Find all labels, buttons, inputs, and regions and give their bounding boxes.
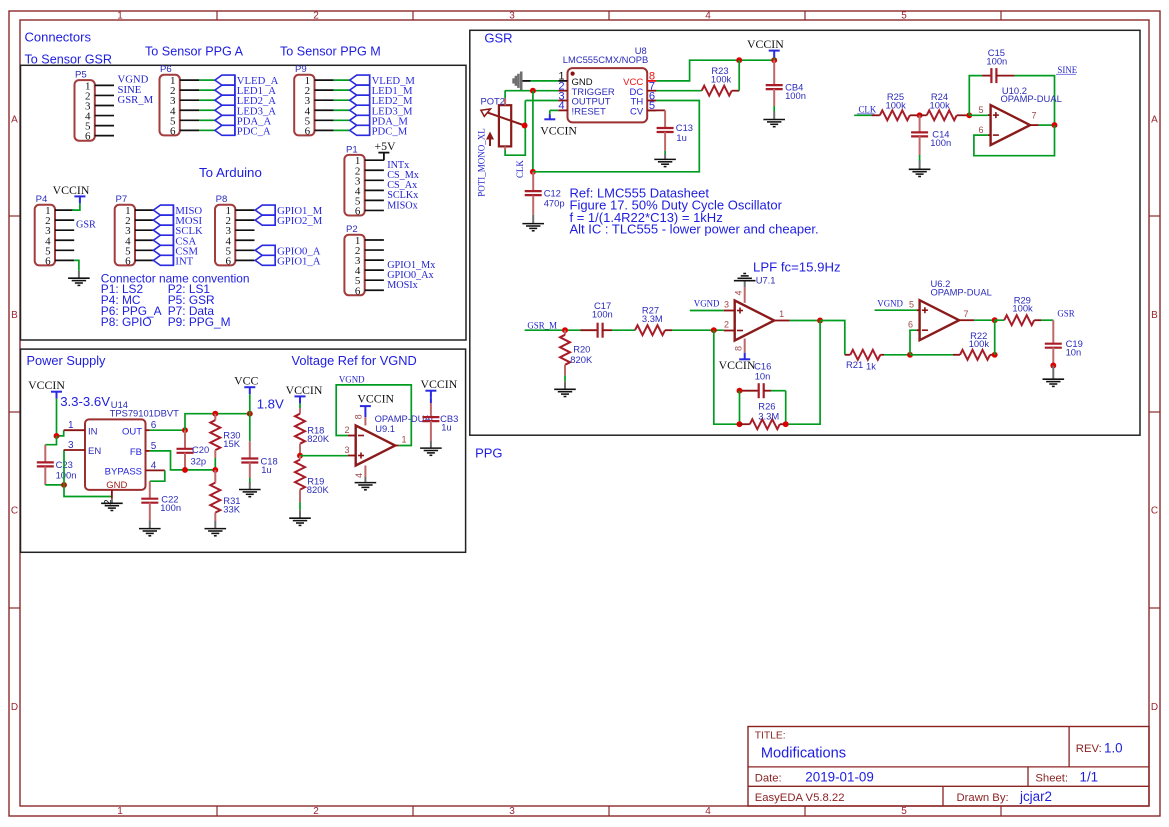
title LPF fc=15.9Hz [753,260,841,275]
svg-text:32p: 32p [191,455,207,466]
wire TH loop [533,101,699,172]
ground at P4 [68,271,90,286]
capacitor C14 [911,115,951,160]
svg-text:GSR_M: GSR_M [118,94,154,106]
ground CB3 [420,441,442,455]
svg-text:A: A [1151,114,1158,125]
svg-text:3: 3 [509,806,515,817]
title block REV [1076,741,1123,756]
junction R26 left [737,421,743,427]
svg-text:CV: CV [630,106,644,117]
POT2 refdes [481,96,506,107]
title block Date [755,770,874,785]
power flag VCCIN at CB3 [421,377,458,398]
U14 part number [110,408,180,419]
svg-text:820K: 820K [307,433,330,444]
wire C16 right down [785,391,787,425]
title Power Supply [27,353,107,368]
wire OUTPUT to POT bottom [505,101,525,156]
svg-text:3: 3 [68,440,74,451]
U14 refdes [111,399,128,410]
svg-text:CLK: CLK [515,160,525,178]
Power Supply section box [21,349,466,552]
junction TRIGGER-C12-TH [530,169,536,175]
svg-text:POT2: POT2 [481,96,506,107]
wire C15 top branch [969,76,982,116]
svg-text:GSR_M: GSR_M [527,321,557,331]
U8 refdes [635,45,647,56]
wire GND net to U14 GND pin [64,485,112,497]
svg-text:1: 1 [117,806,123,817]
net label VGND at U6 [877,299,903,309]
wire to U10 pin5 [969,114,988,116]
junction R22 right [992,352,998,358]
junction GSR_M-R20 [562,327,568,333]
svg-text:6: 6 [355,285,361,297]
svg-text:OPAMP-DUAL: OPAMP-DUAL [931,286,992,297]
svg-text:B: B [11,310,18,321]
svg-text:100n: 100n [785,90,806,101]
resistor R22 [953,330,995,360]
U14 pin4 BYPASS [105,460,165,477]
U8 pin7 DC [629,81,656,98]
svg-text:100k: 100k [886,100,907,111]
svg-text:Modifications: Modifications [761,746,846,762]
svg-text:1u: 1u [676,132,686,143]
U10.2 pin7 output [1030,110,1039,125]
title block TITLE label [755,731,786,742]
wire U8 pin1 [531,80,559,82]
IC U8 LMC555 box [568,68,648,122]
svg-text:5: 5 [978,105,983,115]
svg-text:LPF fc=15.9Hz: LPF fc=15.9Hz [753,260,841,275]
connector P6 [160,64,200,137]
capacitor C17 [581,300,613,338]
svg-text:Sheet:: Sheet: [1035,772,1068,784]
ground C14 [909,161,931,177]
svg-text:1k: 1k [866,360,876,371]
net label CLK vertical [515,160,525,178]
junction R26 right [783,421,789,427]
power flag VCCIN at R18 [286,383,323,404]
svg-text:2: 2 [344,425,349,435]
ground C22 [139,521,161,536]
svg-text:1u: 1u [261,464,271,475]
svg-text:3: 3 [509,11,515,22]
svg-text:BYPASS: BYPASS [105,467,142,478]
wire C20 node up to top rail [185,414,250,431]
svg-text:POTI_MONO_XL: POTI_MONO_XL [477,128,487,197]
svg-text:VCCIN: VCCIN [719,358,756,372]
op-amp U9.1 [356,426,396,466]
svg-text:To Sensor PPG M: To Sensor PPG M [280,45,381,59]
U7.1 pin8 VCCIN [719,339,756,372]
svg-text:Power Supply: Power Supply [27,353,107,368]
junction rail R30 [212,411,218,417]
wire FB node [150,451,216,470]
svg-text:10n: 10n [1066,347,1082,358]
op-amp U7.1 [735,301,775,341]
junction U10 output [1052,122,1058,128]
svg-text:820K: 820K [570,354,593,365]
resistor R21 [845,350,884,372]
svg-text:C20: C20 [192,444,209,455]
svg-text:6: 6 [45,255,51,267]
wire VGND feedback loop [336,385,411,446]
net ports P6 group [215,75,235,136]
svg-text:REV:: REV: [1076,743,1102,755]
capacitor C15 [982,47,1015,83]
wire C23 to GND net [45,484,64,486]
note Connector name convention [101,271,250,285]
junction U7 output [817,318,823,324]
ground C18 [239,482,261,497]
wire to U9 pin3 [300,455,348,457]
svg-text:P6: P6 [160,64,172,75]
connector P7 [115,194,155,267]
svg-text:100n: 100n [986,55,1007,66]
U8 pin2 TRIGGER [558,81,615,98]
U14 pin1 IN [64,420,98,437]
svg-text:R20: R20 [573,344,590,355]
title To Sensor PPG A [145,45,244,59]
GSR section box [470,30,1140,435]
wire OUTPUT net [525,100,558,102]
U9.1 pin1 output [395,435,406,446]
wire U6 output [974,319,995,321]
title Voltage Ref for VGND [292,353,417,368]
wire GSR_M [525,329,581,331]
U10.2 pin5 [978,105,990,115]
svg-text:C: C [1151,505,1158,516]
junction C19 bottom [1050,363,1056,369]
title block EasyEDA version [755,792,845,804]
svg-text:P5: P5 [75,70,87,81]
power flag VCCIN at P4 [53,183,90,204]
svg-text:5: 5 [901,806,907,817]
svg-text:PPG: PPG [475,446,502,461]
junction TRIGGER [530,88,536,94]
power flag VCC [234,374,258,395]
note P4 P5 [101,293,215,307]
svg-text:1: 1 [779,309,784,319]
connector P2 [344,224,384,297]
wire VGND to U7 pin3 [690,310,724,312]
svg-text:VGND: VGND [877,299,903,309]
svg-text:100k: 100k [930,100,951,111]
svg-text:MISOx: MISOx [387,200,418,211]
connector P5 [75,70,115,143]
svg-text:GSR: GSR [76,220,96,231]
capacitor C23 [37,445,77,485]
svg-text:P9: P9 [295,64,307,75]
svg-text:3.3-3.6V: 3.3-3.6V [60,394,110,409]
svg-text:1.0: 1.0 [1104,741,1123,756]
junction U7 pin2 node [711,327,717,333]
wire VCCIN to C23 [45,436,56,445]
wire P4 pin6 down [74,260,79,270]
POT2 variable arrow [486,132,494,147]
op-amp U6.2 [920,300,960,340]
wire C15 to output [1015,76,1055,126]
U8 pin3 OUTPUT [558,90,610,107]
svg-text:4: 4 [354,473,364,478]
svg-text:2019-01-09: 2019-01-09 [805,770,874,785]
junction R25-R24-C14 [917,112,923,118]
wire VGND to U6 pin5 [875,309,917,311]
potentiometer POT2 body [499,98,511,150]
svg-text:EN: EN [88,446,101,457]
U6.2 pin7 output [959,309,974,320]
wire POT2 top to TRIGGER [504,91,506,98]
svg-text:6: 6 [85,131,91,143]
wire BYPASS to C22 [150,470,165,481]
svg-text:VCCIN: VCCIN [540,124,577,138]
svg-text:VCCIN: VCCIN [747,37,784,51]
svg-text:6: 6 [305,125,311,137]
junction VCCIN node [54,433,60,439]
capacitor C13 [647,110,693,154]
svg-text:470p: 470p [544,197,565,208]
svg-text:VCCIN: VCCIN [357,392,394,406]
U14 pin3 EN [64,440,102,457]
capacitor C19 [1045,320,1083,365]
U7.1 refdes [756,275,776,286]
svg-text:IN: IN [88,426,98,437]
U8 part number [563,54,648,65]
U9.1 labels [375,413,436,434]
wire TRIGGER down to C12-TH [532,91,534,172]
svg-text:D: D [11,702,18,713]
junction FB-C20 [182,467,188,473]
wire CLK to R25 [854,114,871,116]
svg-text:100k: 100k [969,338,990,349]
U8 pin6 TH [631,90,657,107]
U10.2 labels [1001,85,1062,104]
svg-text:P4: P4 [36,194,48,205]
svg-text:VCCIN: VCCIN [286,383,323,397]
label 3.3-3.6V [60,394,110,409]
svg-text:To Arduino: To Arduino [199,165,262,180]
wire U10 feedback [974,125,1055,156]
svg-text:10n: 10n [755,370,771,381]
svg-text:100n: 100n [56,470,77,481]
resistor R25 [872,91,920,120]
junction C16 left [737,388,743,394]
resistor R23 [702,65,740,96]
net label VGND [118,74,149,86]
svg-text:GPIO2_M: GPIO2_M [277,215,323,227]
wire R29 to GSR [1041,319,1053,321]
U14 pin5 FB [130,441,157,458]
wire C17 to R27 [612,329,635,331]
U8 pin4 !RESET [558,100,606,117]
note P8 P9 [101,315,231,329]
svg-text:1u: 1u [441,422,451,433]
svg-text:GSR: GSR [484,31,512,46]
U9.1 pin8 VCCIN [354,392,395,426]
net label CLK [857,104,877,114]
U9.1 pin3 [344,445,355,456]
svg-text:CLK: CLK [859,104,877,114]
svg-text:LMC555CMX/NOPB: LMC555CMX/NOPB [563,54,648,65]
svg-text:7: 7 [1031,110,1036,120]
resistor R27 [635,304,672,335]
resistor R29 [1004,294,1041,325]
svg-text:VCCIN: VCCIN [28,378,65,392]
ground flag U8 pin1 [514,72,531,91]
title block Sheet [1035,770,1098,785]
svg-text:+5V: +5V [374,139,396,153]
power flag VCCIN at U8 RESET [540,115,577,138]
title Connectors [25,30,92,45]
junction C23-EN-GND [61,482,67,488]
svg-text:B: B [1151,310,1158,321]
U7.1 pin4 ground [733,274,755,303]
wire R22 node [910,354,953,356]
svg-text:1: 1 [117,11,123,22]
svg-text:GSR: GSR [1057,308,1074,318]
title GSR [484,31,512,46]
svg-text:TPS79101DBVT: TPS79101DBVT [110,408,180,419]
svg-text:Drawn By:: Drawn By: [957,792,1009,804]
U6.2 pin6 [908,320,920,331]
wire feedback bottom [714,330,740,424]
U7.1 pin1 output [774,309,789,321]
capacitor C16 [740,361,786,399]
junction OUT-C20 [182,427,188,433]
note f formula [570,210,723,225]
capacitor C20 [177,430,210,470]
U8 pin1 GND [558,71,592,88]
capacitor CB4 [766,58,806,112]
ground C12 [522,215,544,231]
resistor R20 [560,330,593,381]
svg-text:P2: P2 [346,224,358,235]
svg-text:8: 8 [354,414,364,419]
title PPG [475,446,502,461]
svg-text:100n: 100n [930,137,951,148]
svg-text:100k: 100k [711,74,732,85]
wire C16 left down [739,391,741,425]
IC U14 TPS79101DBVT box [85,419,146,490]
svg-text:R21: R21 [846,359,863,370]
svg-text:5: 5 [909,300,914,310]
svg-text:2: 2 [724,320,729,330]
wire output to feedback bottom [786,321,820,425]
svg-text:6: 6 [355,205,361,217]
net label SINE [1056,65,1077,75]
U14 GND pin2 [103,480,127,505]
wire TRIGGER net [505,90,559,92]
wire R21 to node [884,354,910,356]
svg-text:6: 6 [225,255,231,267]
svg-text:Voltage Ref for VGND: Voltage Ref for VGND [292,353,417,368]
svg-text:1.8V: 1.8V [257,397,284,412]
svg-text:5: 5 [901,11,907,22]
svg-text:VCCIN: VCCIN [53,183,90,197]
net port labels P7 [175,205,203,267]
net ports P8 group [255,205,275,266]
ground R20 [554,381,576,396]
resistor R31 [210,470,240,521]
junction FB-R30-R31 [212,467,218,473]
svg-text:A: A [11,114,18,125]
junction R21-R22-U6pin6 [907,352,913,358]
svg-text:4: 4 [151,460,157,471]
wire VCC down [249,394,251,441]
resistor R30 [210,414,240,470]
svg-text:U7.1: U7.1 [756,275,776,286]
connector P8 [215,194,255,267]
svg-text:!RESET: !RESET [572,106,607,117]
svg-text:VCCIN: VCCIN [421,377,458,391]
svg-text:FB: FB [130,447,142,458]
svg-text:3.3M: 3.3M [642,313,663,324]
power flag VCCIN power-supply [28,378,65,399]
junction R18-R19 [297,453,303,459]
wire P4 pin1 to VCCIN [72,203,80,210]
svg-text:jcjar2: jcjar2 [1019,789,1052,804]
capacitor C22 [141,481,181,520]
svg-text:SINE: SINE [1057,65,1077,75]
wire !RESET to VCCIN [550,110,559,114]
resistor R26 [740,401,786,430]
svg-text:To Sensor PPG A: To Sensor PPG A [145,45,244,59]
svg-text:8: 8 [733,346,743,351]
U10.2 pin6 [978,125,990,135]
wires P6 to ports [199,80,215,130]
ground C13 [654,154,676,167]
svg-text:6: 6 [978,125,983,135]
power flag VCCIN at CB4 [747,37,784,58]
svg-text:6: 6 [125,255,131,267]
net label GSR [1057,308,1074,318]
note P6 P7 [101,304,215,318]
connector P1 [344,144,384,217]
junction rail VCC [247,411,253,417]
svg-text:P7: P7 [116,194,128,205]
svg-text:2: 2 [313,806,319,817]
POT2 wiper arrow [481,109,525,126]
svg-text:4: 4 [705,11,711,22]
svg-text:TITLE:: TITLE: [755,731,786,742]
svg-text:P1: P1 [346,144,358,155]
svg-text:33K: 33K [223,503,240,514]
svg-text:PDC_A: PDC_A [237,125,271,137]
U8 pin8 VCC [623,71,656,88]
svg-text:3: 3 [344,445,349,455]
svg-text:MOSIx: MOSIx [387,280,418,291]
title block frame [748,727,1149,807]
svg-text:OPAMP-DUAL: OPAMP-DUAL [1001,93,1062,104]
net labels P2 [387,260,435,291]
svg-text:VGND: VGND [694,298,720,308]
svg-text:1/1: 1/1 [1080,770,1099,785]
net label VGND at U7 [694,298,720,308]
U6.2 labels [931,278,992,297]
svg-text:C: C [11,505,18,516]
U8 pin5 CV [630,100,656,117]
wire DC to R23 [656,90,701,92]
junction POT2 wiper [522,123,528,129]
svg-text:P8: P8 [216,194,228,205]
svg-text:100n: 100n [592,309,613,320]
U9.1 pin4 ground [354,466,376,490]
svg-text:100n: 100n [160,502,181,513]
label 1.8V [257,397,284,412]
svg-text:VGND: VGND [339,375,365,385]
